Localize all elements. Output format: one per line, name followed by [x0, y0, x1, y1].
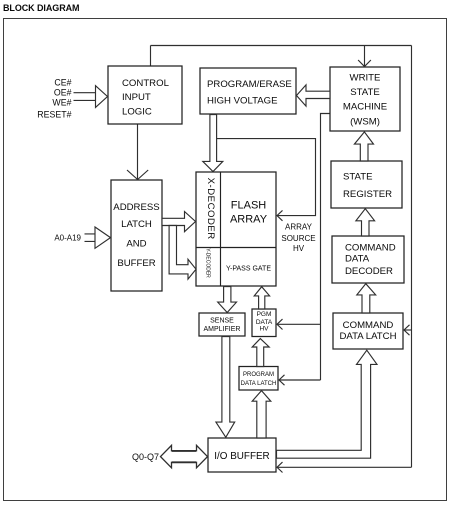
wire: right vertical rail x=411.5 — [411, 46, 413, 468]
hollow arrow: STATE REGISTER up into WSM — [354, 132, 373, 161]
svg-text:X-DECODER: X-DECODER — [205, 178, 216, 240]
svg-text:A0-A19: A0-A19 — [54, 233, 81, 242]
svg-text:STATE: STATE — [343, 171, 373, 182]
block STATE REGISTER — [331, 161, 402, 208]
hollow arrow: PGM DATA HV up into Y-PASS GATE — [254, 287, 269, 309]
block FLASH ARRAY / decoders — [196, 172, 276, 286]
hollow arrow: I/O BUFFER bent up into COMMAND DATA LATCH — [277, 350, 378, 458]
hollow arrow: PROGRAM DATA LATCH up into PGM DATA HV — [252, 339, 269, 367]
svg-text:Q0-Q7: Q0-Q7 — [132, 452, 159, 462]
svg-text:PROGRAM/ERASE: PROGRAM/ERASE — [207, 79, 292, 90]
svg-text:COMMAND: COMMAND — [345, 243, 396, 254]
svg-text:CE#: CE# — [54, 78, 71, 88]
hollow arrow: SENSE AMPLIFIER down into I/O BUFFER — [216, 337, 235, 438]
hollow arrow: PROGRAM/ERASE HV down into X-DECODER top — [203, 115, 223, 172]
arrowhead into WSM top — [358, 60, 371, 67]
svg-text:MACHINE: MACHINE — [343, 102, 387, 113]
svg-text:ARRAY: ARRAY — [230, 214, 268, 226]
hollow arrow: I/O BUFFER up into PROGRAM DATA LATCH — [252, 391, 271, 438]
hollow arrow: Q0-Q7 bidirectional into I/O BUFFER — [161, 445, 208, 467]
svg-text:AMPLIFIER: AMPLIFIER — [204, 326, 241, 333]
svg-text:CONTROL: CONTROL — [122, 78, 170, 89]
svg-text:HV: HV — [259, 326, 269, 333]
block ADDRESS LATCH AND BUFFER — [111, 180, 162, 291]
hollow arrow: COMMAND DATA DECODER up into STATE REGISTER — [356, 209, 375, 236]
svg-text:PROGRAM: PROGRAM — [243, 372, 274, 378]
svg-text:BUFFER: BUFFER — [117, 258, 155, 269]
svg-text:SOURCE: SOURCE — [281, 234, 315, 243]
svg-text:FLASH: FLASH — [231, 200, 267, 212]
svg-text:Y-PASS GATE: Y-PASS GATE — [226, 266, 271, 273]
wire: CONTROL INPUT LOGIC down to ADDRESS LATCH — [137, 124, 139, 179]
hollow arrow: control inputs into CONTROL INPUT LOGIC — [74, 86, 108, 108]
svg-text:DATA: DATA — [345, 253, 370, 264]
svg-text:REGISTER: REGISTER — [343, 189, 392, 200]
block PGM DATA HV — [252, 309, 276, 337]
arrowhead into I/O BUFFER right edge — [277, 462, 283, 472]
svg-text:SENSE: SENSE — [210, 318, 234, 325]
svg-text:INPUT: INPUT — [122, 92, 151, 103]
hollow arrow: WSM to PROGRAM/ERASE HIGH VOLTAGE — [297, 85, 331, 106]
svg-text:WRITE: WRITE — [350, 73, 381, 84]
block CONTROL INPUT LOGIC — [108, 66, 182, 124]
block PROGRAM DATA LATCH — [239, 367, 278, 391]
svg-text:BLOCK DIAGRAM: BLOCK DIAGRAM — [3, 3, 79, 13]
hollow arrow: COMMAND DATA LATCH up into COMMAND DATA DECODER — [357, 284, 376, 313]
svg-text:AND: AND — [126, 238, 146, 249]
svg-text:DATA LATCH: DATA LATCH — [339, 331, 396, 342]
svg-text:WE#: WE# — [52, 98, 71, 108]
svg-text:ADDRESS: ADDRESS — [113, 202, 159, 213]
arrowhead into PGM DATA HV right edge — [277, 319, 283, 329]
arrowhead into PROGRAM DATA LATCH right edge — [279, 375, 285, 385]
hollow arrow: A0-A19 into ADDRESS LATCH — [85, 227, 111, 248]
svg-text:DATA LATCH: DATA LATCH — [241, 381, 277, 387]
wire: array source HV feed — [217, 139, 316, 216]
arrowhead into COMMAND DATA LATCH right edge — [404, 325, 410, 335]
svg-text:STATE: STATE — [350, 87, 380, 98]
hollow arrow: ADDRESS LATCH to X-DECODER — [162, 212, 196, 232]
wire: branch into I/O BUFFER right edge — [277, 466, 412, 468]
svg-text:ARRAY: ARRAY — [285, 222, 313, 231]
hollow arrow: ADDRESS LATCH to Y-DECODER (bent) — [169, 226, 196, 280]
block WRITE STATE MACHINE (WSM) — [330, 67, 400, 131]
block PROGRAM/ERASE HIGH VOLTAGE — [200, 68, 296, 114]
wire: branch into COMMAND DATA LATCH right edge — [404, 329, 412, 331]
svg-text:PGM: PGM — [257, 311, 272, 318]
label ARRAY SOURCE HV — [281, 222, 315, 252]
block SENSE AMPLIFIER — [199, 313, 245, 336]
wire: branch into PROGRAM DATA LATCH right edge — [279, 379, 321, 381]
svg-text:LATCH: LATCH — [121, 219, 152, 230]
svg-text:HIGH VOLTAGE: HIGH VOLTAGE — [207, 96, 278, 107]
block I/O BUFFER — [208, 438, 276, 472]
wire: rail drop into WSM top — [364, 46, 366, 67]
svg-text:HV: HV — [293, 244, 305, 253]
svg-text:COMMAND: COMMAND — [343, 320, 394, 331]
wire: WSM left to vertical rail x=320.5 — [321, 114, 331, 381]
wire: CONTROL INPUT LOGIC top to rail — [150, 46, 152, 67]
block COMMAND DATA DECODER — [332, 236, 404, 283]
arrowhead into FLASH ARRAY right edge — [277, 210, 283, 220]
svg-text:RESET#: RESET# — [37, 109, 71, 119]
svg-text:(WSM): (WSM) — [350, 117, 380, 128]
svg-text:Y-DECODER: Y-DECODER — [205, 248, 211, 278]
svg-text:DECODER: DECODER — [345, 266, 393, 277]
hollow arrow: Y-PASS GATE down into SENSE AMPLIFIER — [218, 287, 237, 313]
block COMMAND DATA LATCH — [333, 313, 403, 349]
svg-text:LOGIC: LOGIC — [122, 107, 152, 118]
arrowhead into ADDRESS LATCH top — [127, 170, 148, 180]
svg-text:I/O BUFFER: I/O BUFFER — [214, 451, 269, 462]
wire: branch into PGM DATA HV right edge — [277, 323, 321, 325]
wire: top horizontal rail — [151, 45, 412, 47]
svg-text:OE#: OE# — [54, 88, 72, 98]
